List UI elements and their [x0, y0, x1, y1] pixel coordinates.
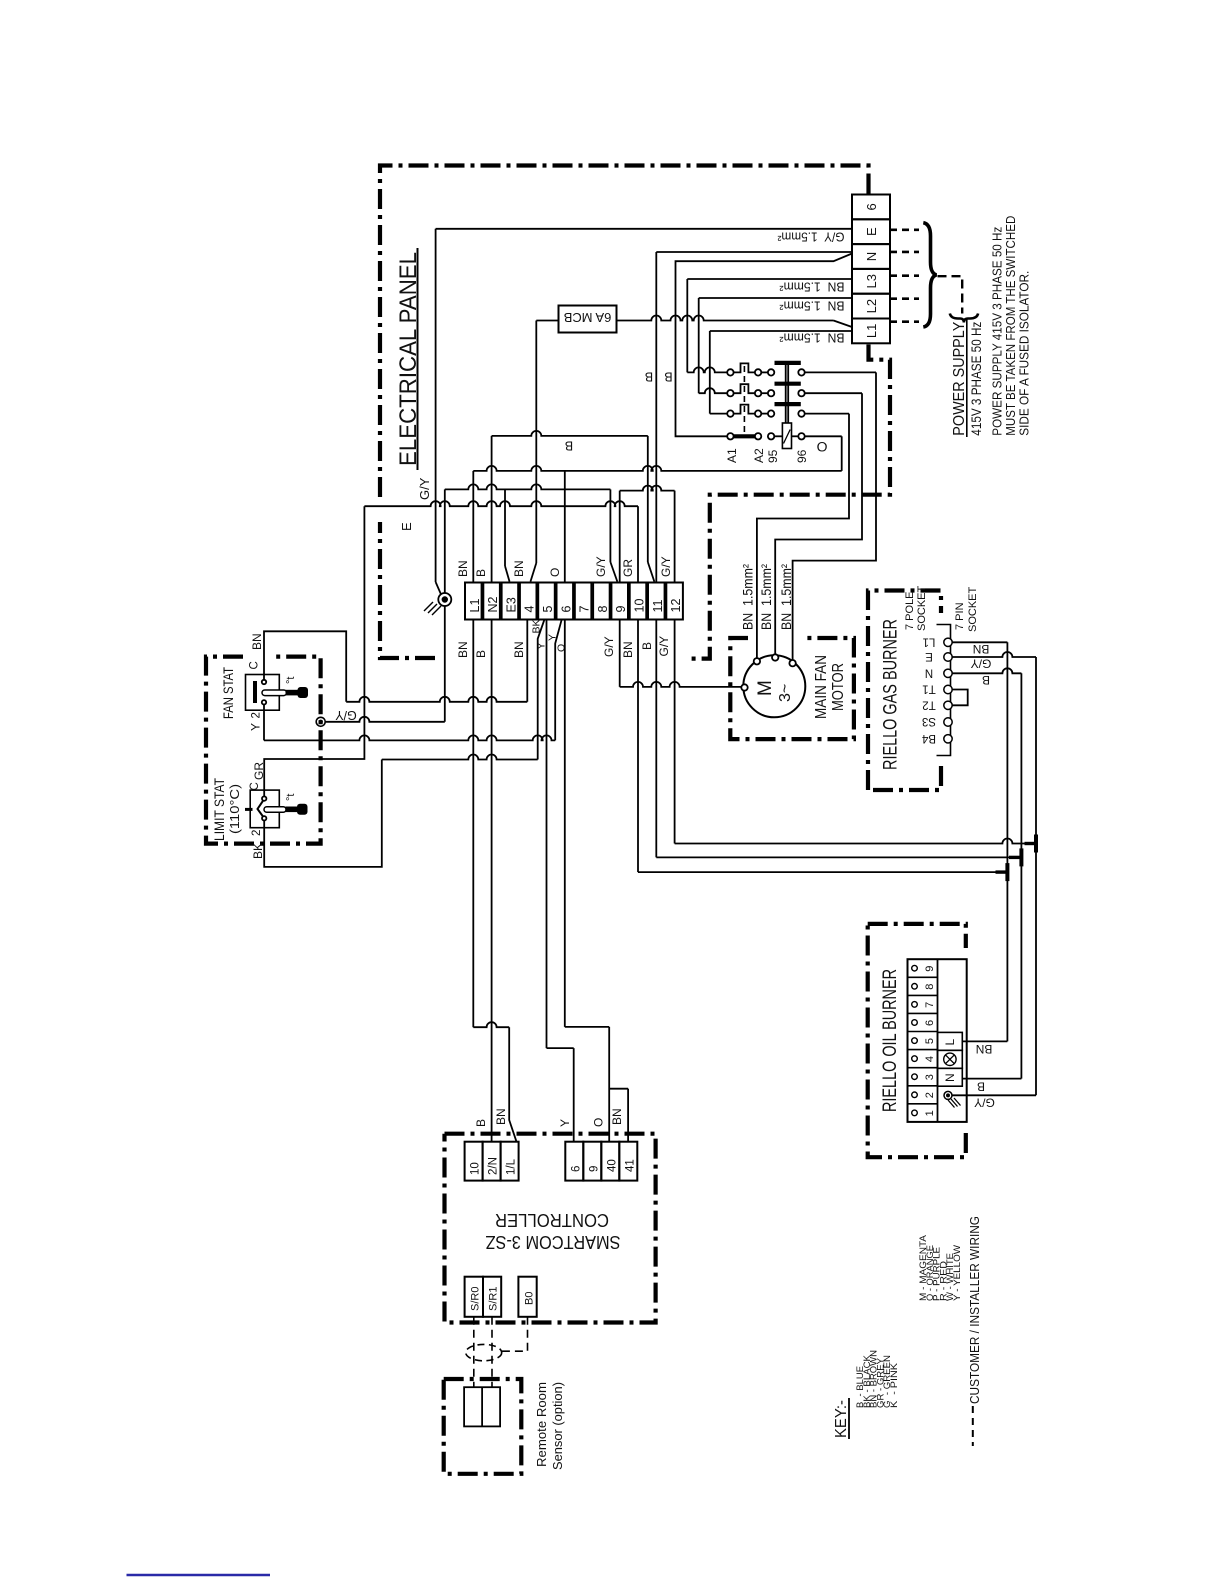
svg-text:Y - YELLOW: Y - YELLOW: [952, 1244, 962, 1301]
svg-text:BN: BN: [494, 1108, 508, 1125]
wire: B0 link to sensor cable (dashed): [502, 1317, 528, 1351]
label: BN 1.5mm2 motor wire 3: [778, 564, 794, 630]
svg-text:N: N: [925, 666, 933, 678]
pin 6 circle oil block: [912, 1020, 918, 1026]
svg-text:S3: S3: [922, 715, 936, 727]
label: wire colour B below strip X2: [640, 642, 654, 650]
svg-text:5: 5: [541, 606, 555, 613]
wire: jumper SMARTCOM 40 to 41: [609, 1089, 628, 1142]
svg-text:BN: BN: [610, 1108, 624, 1125]
svg-text:C: C: [249, 782, 261, 790]
wire: terminal 6 to SMARTCOM 40 (O): [565, 620, 609, 1142]
svg-text:BN: BN: [621, 641, 635, 658]
pin label S3 gas socket: [922, 715, 936, 727]
label: BN at fan stat C: [250, 633, 264, 650]
pin label 8 oil block: [924, 984, 936, 990]
svg-text:S/R1: S/R1: [488, 1287, 500, 1311]
wire: terminal 10 to burner live (BN): [638, 620, 1007, 873]
svg-text:41: 41: [624, 1159, 636, 1172]
svg-text:POWER SUPPLY: POWER SUPPLY: [951, 321, 968, 435]
label: deg-t fan stat: [285, 677, 297, 684]
label: B gas N wire: [982, 673, 990, 687]
pin 8 circle oil block: [912, 984, 918, 990]
label: wire colour Y below strip X2: [536, 642, 548, 649]
svg-text:O: O: [816, 439, 827, 455]
pin label 7 on strip X2: [578, 606, 592, 613]
terminal strip X2 (L1,N2,E3,4-12): [465, 583, 683, 620]
label: wire colour GR above strip X2: [621, 559, 635, 577]
svg-text:RIELLO GAS BURNER: RIELLO GAS BURNER: [881, 619, 902, 770]
svg-text:BK: BK: [251, 843, 265, 859]
motor M1 (M 3~): [741, 654, 805, 717]
wire: terminal 4 to FAN STAT C (BN): [264, 620, 527, 702]
pin label T2 gas socket: [922, 698, 935, 710]
svg-text:RIELLO OIL BURNER: RIELLO OIL BURNER: [880, 969, 901, 1112]
pin label T1 gas socket: [922, 683, 935, 695]
wire: gas socket L1 pin to oil burner L (BN): [952, 642, 1007, 1041]
brace: small brace above POWER SUPPLY label: [950, 314, 978, 323]
label: wire colour B at SMARTCOM: [474, 1119, 488, 1127]
svg-text:T2: T2: [922, 698, 935, 710]
svg-text:A1: A1: [725, 448, 739, 463]
svg-text:B: B: [640, 642, 654, 650]
svg-text:L3: L3: [864, 274, 879, 288]
label: deg-t limit stat: [285, 794, 297, 801]
wire: gas socket N pin to oil burner N (B): [952, 668, 1021, 1078]
svg-text:2: 2: [251, 830, 263, 836]
wire: terminal L1 to SMARTCOM 1/L (BN): [473, 620, 516, 1142]
label: G/Y at fan stat earth: [335, 708, 357, 722]
junction: burner neutral tee: [1009, 848, 1021, 866]
pin label S/R0: [470, 1287, 482, 1311]
pin label 41 SMARTCOM: [624, 1159, 636, 1172]
wire: contactor row2 output to motor terminal V (BN 1.5mm2): [775, 393, 862, 654]
overload relay F1 (95-96): [774, 423, 798, 449]
svg-text:°t: °t: [285, 794, 297, 801]
svg-text:B: B: [474, 1119, 488, 1127]
label: 7 POLE SOCKET: [904, 585, 928, 631]
label: key column 1: [855, 1350, 899, 1408]
label: wire colour B above strip X2: [474, 569, 488, 577]
pin label N gas socket: [925, 666, 933, 678]
svg-text:Sensor (option): Sensor (option): [550, 1382, 565, 1470]
wire: dashed incoming supply stubs (E,N,L3,L2,L1): [890, 230, 919, 322]
svg-text:G/Y: G/Y: [335, 708, 357, 722]
pin label 9 SMARTCOM: [588, 1166, 600, 1172]
svg-text:7: 7: [578, 606, 592, 613]
wire: terminal 12 to burner earth (G/Y): [675, 620, 1036, 844]
label: GR at limit stat C: [252, 762, 266, 780]
svg-text:L1: L1: [923, 635, 936, 647]
connector: gas burner 7-pin socket: [937, 625, 953, 756]
svg-text:SMARTCOM 3-SZ: SMARTCOM 3-SZ: [486, 1232, 621, 1252]
pin label 2 limit stat: [251, 830, 263, 836]
label: G/Y at oil burner earth: [974, 1096, 995, 1110]
svg-text:8: 8: [924, 984, 936, 990]
pin label A2: [752, 448, 766, 463]
label: FAN STAT: [221, 667, 236, 719]
label: wire colour Y at SMARTCOM: [558, 1119, 572, 1127]
svg-text:6: 6: [864, 203, 879, 210]
svg-text:GR: GR: [621, 559, 635, 577]
pin label L1 on strip X1: [864, 324, 879, 338]
label: BN 1.5mm2 motor wire 1: [740, 564, 756, 630]
svg-text:CONTROLLER: CONTROLLER: [495, 1210, 609, 1230]
svg-text:9: 9: [614, 606, 628, 613]
label: wire colour BN at SMARTCOM: [610, 1108, 624, 1125]
label: wire colour BN above strip X2: [512, 560, 526, 577]
svg-text:BN: BN: [512, 560, 526, 577]
svg-text:N: N: [943, 1073, 957, 1082]
pin label 3 oil block: [924, 1074, 936, 1080]
svg-text:O: O: [556, 644, 568, 652]
wire: dash-dot leader from brace to note: [938, 276, 963, 313]
pin 9 circle oil block: [912, 965, 918, 971]
enclosure: SMARTCOM dash-dot box: [445, 1134, 656, 1323]
svg-text:BN: BN: [250, 633, 264, 650]
pin label A1: [725, 448, 739, 463]
cable grommet ellipse: [466, 1344, 502, 1360]
pin label 1/L SMARTCOM: [506, 1158, 518, 1175]
label: key column 2: [918, 1235, 962, 1301]
label: wire colour O above strip X2: [548, 568, 562, 577]
footer rule (blue): [127, 1574, 271, 1577]
label: wire colour G/Y below strip X2: [657, 636, 671, 657]
label: wire colour G/Y above strip X2: [659, 556, 673, 577]
pin label 12 on strip X2: [669, 599, 683, 613]
connector: oil burner terminal block: [908, 959, 967, 1122]
pin label 11 on strip X2: [651, 599, 665, 612]
svg-text:BN 1.5mm²: BN 1.5mm²: [778, 564, 794, 630]
svg-text:4: 4: [523, 606, 537, 613]
contactor K1 main contacts with linkage bars: [734, 363, 801, 414]
wire: contactor row3 output to motor terminal U (BN 1.5mm2): [757, 414, 849, 658]
pin label S/R1: [488, 1287, 500, 1311]
svg-text:3~: 3~: [777, 684, 794, 702]
label: E at earth point: [399, 522, 414, 531]
pin label 6 oil block: [924, 1020, 936, 1026]
svg-text:6: 6: [559, 606, 573, 613]
earth node E (panel earth): [424, 489, 451, 721]
pin 3 circle oil block: [912, 1074, 918, 1080]
label: wire colour O at SMARTCOM: [592, 1118, 606, 1127]
svg-text:11: 11: [651, 599, 665, 612]
contactor K1 linkage (dashed + twin bars to overload): [744, 363, 788, 433]
label: M 3~ inside motor: [755, 680, 794, 702]
wire: terminal 6 to FAN STAT 2 (Y): [264, 620, 562, 740]
thermostat FAN STAT: [246, 675, 309, 711]
enclosure: MAIN FAN MOTOR dash-dot box: [730, 638, 854, 739]
pin label 10 SMARTCOM: [470, 1162, 482, 1175]
enclosure: RIELLO OIL BURNER dash-dot box: [868, 924, 966, 1157]
svg-text:G/Y: G/Y: [974, 1096, 995, 1110]
pin label 96: [795, 449, 809, 463]
indicator lamp oil burner: [938, 1050, 963, 1068]
pin label C fan stat: [249, 661, 261, 669]
pin label 6 on strip X1: [864, 203, 879, 210]
terminal N oil burner: [938, 1068, 963, 1086]
wire: N2 blue bus to terminal 11 (diagonal): [492, 431, 655, 582]
svg-text:MOTOR: MOTOR: [830, 663, 847, 711]
pin label N on strip X1: [864, 252, 879, 261]
label: G/Y at earth point: [417, 477, 432, 500]
svg-text:G/Y: G/Y: [971, 657, 992, 671]
svg-text:B: B: [645, 370, 653, 384]
svg-text:B: B: [664, 370, 672, 384]
svg-text:S/R0: S/R0: [470, 1287, 482, 1311]
svg-text:L: L: [943, 1039, 957, 1046]
svg-text:A2: A2: [752, 448, 766, 463]
svg-text:B0: B0: [524, 1292, 536, 1305]
label: B on N2 bus: [565, 439, 573, 453]
svg-text:6: 6: [570, 1166, 582, 1172]
svg-text:4: 4: [924, 1056, 936, 1062]
svg-text:7 PIN: 7 PIN: [954, 602, 966, 630]
terminal B0 SMARTCOM: [518, 1277, 536, 1317]
svg-text:MAIN FAN: MAIN FAN: [813, 655, 830, 719]
pin label E3 on strip X2: [504, 597, 518, 612]
pin label L1 on strip X2: [468, 599, 482, 613]
svg-text:L1: L1: [864, 324, 879, 338]
earth dot on FAN STAT enclosure: [316, 717, 325, 726]
label: G/Y 1.5mm2 on E wire: [777, 230, 845, 245]
pin label 7 oil block: [924, 1002, 936, 1008]
thermostat LIMIT STAT: [245, 790, 308, 828]
svg-text:G/Y: G/Y: [659, 556, 673, 577]
wire: S/R0 to remote sensor (dashed): [473, 1317, 475, 1387]
pin label 4 oil block: [924, 1056, 936, 1062]
terminal L oil burner: [938, 1032, 963, 1050]
pin label N2 on strip X2: [486, 596, 500, 612]
svg-text:B: B: [977, 1080, 985, 1094]
label: BN 1.5mm2 motor wire 2: [758, 564, 774, 630]
pin label 40 SMARTCOM: [606, 1159, 618, 1172]
pin 4 circle oil block: [912, 1056, 918, 1062]
svg-text:BN: BN: [512, 641, 526, 658]
label: B on N neutral drop: [645, 370, 653, 384]
pin label 1 oil block: [924, 1110, 936, 1116]
label: BN at oil burner L: [976, 1042, 993, 1056]
label: BN 1.5mm2 on L2 wire: [779, 299, 845, 314]
wire: terminal N2 to SMARTCOM 2/N (B): [491, 620, 493, 1142]
terminal strip SMARTCOM (6,9,40,41): [565, 1142, 637, 1181]
wire: contactor row1 output to motor terminal W (BN 1.5mm2): [793, 372, 876, 660]
svg-text:B: B: [474, 650, 488, 658]
circuit breaker 6A MCB: [559, 306, 617, 333]
svg-text:O: O: [548, 568, 562, 577]
label: power supply note: [990, 216, 1032, 436]
pin label 6 on strip X2: [559, 606, 573, 613]
svg-text:BN 1.5mm²: BN 1.5mm²: [758, 564, 774, 630]
svg-text:9: 9: [924, 966, 936, 972]
svg-text:BN: BN: [456, 641, 470, 658]
pin label 5 on strip X2: [541, 606, 555, 613]
svg-text:SOCKET: SOCKET: [967, 586, 979, 632]
svg-text:Y: Y: [249, 723, 263, 731]
svg-text:GR: GR: [252, 762, 266, 780]
wire: terminal 9 to fan motor earth (G/Y): [620, 620, 742, 687]
pin label 2 oil block: [924, 1092, 936, 1098]
svg-text:E: E: [399, 522, 414, 531]
pin label E gas socket: [925, 650, 933, 662]
label: BN 1.5mm2 on L3 wire: [779, 280, 845, 295]
enclosure: remote room sensor dash-dot box: [444, 1379, 522, 1474]
pin label 95: [766, 449, 780, 463]
label: wire colour BK below strip X2: [531, 619, 543, 633]
enclosure: ELECTRICAL PANEL dash-dot boundary: [380, 166, 890, 659]
pin label 4 on strip X2: [523, 606, 537, 613]
label: BN 1.5mm2 on L1 wire: [779, 331, 845, 346]
svg-text:L2: L2: [864, 299, 879, 313]
earth node oil burner: [944, 1091, 961, 1107]
label: SMARTCOM 3-SZ CONTROLLER: [486, 1210, 621, 1252]
svg-text:FAN STAT: FAN STAT: [221, 667, 236, 719]
svg-text:SIDE OF A FUSED ISOLATOR.: SIDE OF A FUSED ISOLATOR.: [1017, 271, 1032, 436]
terminal strip SMARTCOM (S/R0,S/R1): [465, 1277, 502, 1317]
label: Remote Room Sensor (option): [534, 1382, 565, 1470]
wire: GR limit stat C to terminal 10 riser: [264, 506, 364, 796]
svg-text:BN 1.5mm²: BN 1.5mm²: [779, 280, 845, 295]
wire: GR bus limit stat to terminal 10: [364, 501, 638, 582]
svg-text:E3: E3: [504, 597, 518, 612]
label: LIMIT STAT (110C): [212, 778, 242, 841]
wire: E terminal to earth point (G/Y): [436, 229, 852, 595]
pin label 2 fan stat: [251, 712, 263, 718]
legend: customer/installer wiring dashed sample: [972, 1406, 974, 1446]
label: Y at fan stat 2: [249, 723, 263, 731]
label: ELECTRICAL PANEL title: [395, 248, 422, 470]
svg-text:10: 10: [633, 599, 647, 613]
junction: burner earth tee: [1025, 835, 1037, 853]
svg-text:T1: T1: [922, 683, 935, 695]
brace: power supply group brace: [923, 223, 936, 327]
label: wire colour BN above strip X2: [456, 560, 470, 577]
label: B on N coil drop: [664, 370, 672, 384]
label: BN gas L1 wire: [973, 642, 990, 656]
svg-text:G/Y: G/Y: [594, 556, 608, 577]
wire: terminal 5 to SMARTCOM 6 (Y): [547, 620, 574, 1142]
wire: L2 to contactor row2: [699, 298, 852, 393]
pin 5 circle oil block: [912, 1038, 918, 1044]
label: B at oil burner N: [977, 1080, 985, 1094]
svg-text:8: 8: [596, 606, 610, 613]
label: wire colour BN at SMARTCOM: [494, 1108, 508, 1125]
svg-text:2: 2: [251, 712, 263, 718]
svg-text:BN 1.5mm²: BN 1.5mm²: [779, 331, 845, 346]
svg-text:N2: N2: [486, 596, 500, 612]
label: wire colour G/Y above strip X2: [594, 556, 608, 577]
svg-text:95: 95: [766, 449, 780, 463]
label: KEY heading: [833, 1398, 850, 1439]
label: POWER SUPPLY: [951, 319, 984, 437]
pin label 5 oil block: [924, 1038, 936, 1044]
svg-text:(110°C): (110°C): [227, 784, 242, 834]
wire: FAN STAT enclosure earth to panel earth (G/Y): [325, 717, 445, 722]
svg-text:7 POLE: 7 POLE: [904, 591, 916, 630]
enclosure: stats dash-dot box: [206, 657, 321, 844]
label: wire colour BN below strip X2: [456, 641, 470, 658]
pin label C limit stat: [249, 782, 261, 790]
svg-text:12: 12: [669, 599, 683, 613]
svg-text:BN 1.5mm²: BN 1.5mm²: [740, 564, 756, 630]
pin label 2/N SMARTCOM: [488, 1157, 500, 1175]
pin label L1 gas socket: [923, 635, 936, 647]
wire: overload 96 to O bus: [805, 436, 842, 471]
label: 7 PIN SOCKET: [954, 586, 979, 632]
pin label L2 on strip X1: [864, 299, 879, 313]
svg-text:40: 40: [606, 1159, 618, 1172]
pin label 6 SMARTCOM: [570, 1166, 582, 1172]
svg-text:1/L: 1/L: [506, 1158, 518, 1175]
svg-text:BN 1.5mm²: BN 1.5mm²: [779, 299, 845, 314]
pin label B4 gas socket: [921, 732, 936, 744]
label: G/Y gas E wire: [971, 657, 992, 671]
label: wire colour B below strip X2: [474, 650, 488, 658]
pin label 10 on strip X2: [633, 599, 647, 613]
svg-text:B: B: [982, 673, 990, 687]
label: wire colour BN below strip X2: [512, 641, 526, 658]
svg-text:2: 2: [924, 1092, 936, 1098]
svg-text:CUSTOMER / INSTALLER WIRING: CUSTOMER / INSTALLER WIRING: [968, 1216, 982, 1404]
svg-text:B: B: [474, 569, 488, 577]
svg-text:K - PINK: K - PINK: [889, 1363, 899, 1408]
svg-text:C: C: [249, 661, 261, 669]
pin label N oil burner: [943, 1073, 957, 1082]
svg-text:BN: BN: [976, 1042, 993, 1056]
label: MAIN FAN MOTOR: [813, 655, 847, 719]
svg-text:G/Y: G/Y: [417, 477, 432, 500]
pin 2 circle oil block: [912, 1092, 918, 1098]
svg-text:E: E: [925, 650, 933, 662]
pin label B0: [524, 1292, 536, 1305]
label: O wire colour at 96: [816, 439, 827, 455]
svg-text:°t: °t: [285, 677, 297, 684]
pin label 9 oil block: [924, 966, 936, 972]
pin label 8 on strip X2: [596, 606, 610, 613]
svg-text:KEY:-: KEY:-: [833, 1400, 850, 1438]
remote room sensor RT1: [464, 1387, 500, 1426]
wire: G/Y earth bus to terminal 9: [445, 484, 618, 581]
svg-text:BN: BN: [973, 642, 990, 656]
terminal strip SMARTCOM (10,2/N,1/L): [465, 1142, 519, 1181]
svg-text:415V 3 PHASE 50 Hz: 415V 3 PHASE 50 Hz: [968, 322, 984, 436]
svg-text:6: 6: [924, 1020, 936, 1026]
svg-text:96: 96: [795, 449, 809, 463]
wire: N terminal diagonal branch to contactor coil A1: [676, 254, 853, 437]
wire: MCB output to terminal 4 (via diagonal): [531, 321, 559, 582]
label: wire colour O below strip X2: [556, 644, 568, 652]
wire: L3 to contactor row1: [687, 279, 852, 372]
wire: terminal 11 to burner neutral (B): [656, 620, 1021, 858]
label: RIELLO GAS BURNER: [881, 619, 902, 770]
svg-text:G/Y: G/Y: [657, 636, 671, 657]
wire: S/R1 to remote sensor (dashed): [491, 1317, 493, 1387]
svg-text:Remote Room: Remote Room: [534, 1382, 549, 1467]
wire: BK terminal 5 to LIMIT STAT 2: [264, 620, 544, 867]
svg-text:O: O: [592, 1118, 606, 1127]
svg-text:2/N: 2/N: [488, 1157, 500, 1175]
svg-text:SOCKET: SOCKET: [916, 585, 928, 631]
label: BK at limit stat 2: [251, 843, 265, 859]
svg-text:B4: B4: [921, 732, 936, 744]
svg-text:9: 9: [588, 1166, 600, 1172]
pin label L3 on strip X1: [864, 274, 879, 288]
enclosure: RIELLO GAS BURNER dash-dot box: [868, 591, 941, 791]
wire: N terminal straight branch to terminal 11: [656, 252, 852, 582]
svg-text:10: 10: [470, 1162, 482, 1175]
svg-text:BN: BN: [456, 560, 470, 577]
svg-text:Y: Y: [558, 1119, 572, 1127]
